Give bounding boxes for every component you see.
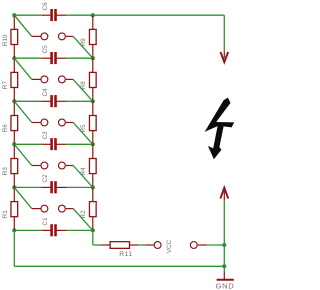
pin stub VCC contact bbox=[145, 244, 154, 246]
capacitor C3 bbox=[42, 138, 67, 150]
wire row 6 left segment bbox=[14, 229, 41, 231]
capacitor C4 bbox=[42, 95, 67, 107]
wire vertical right net bbox=[223, 201, 225, 267]
resistor R6 bbox=[11, 101, 18, 144]
capacitor C1 bbox=[42, 224, 67, 236]
junction row 6 right bbox=[91, 228, 95, 232]
label C1 bbox=[42, 217, 49, 226]
label R3 bbox=[2, 167, 9, 176]
off-page arrow (up) right side bbox=[220, 188, 228, 201]
wire diagonal row4 to left contact bbox=[14, 144, 32, 165]
label R11 bbox=[119, 251, 132, 258]
wire row 3 right segment bbox=[66, 100, 92, 102]
wire left bus bottom bbox=[14, 230, 224, 266]
contact pin left (pair 4) bbox=[32, 162, 48, 169]
svg-text:C4: C4 bbox=[42, 88, 49, 97]
wire row 3 left segment bbox=[14, 100, 41, 102]
svg-text:R7: R7 bbox=[2, 81, 9, 90]
resistor R11 bbox=[102, 242, 139, 249]
resistor R7 bbox=[11, 58, 18, 101]
junction right net at bottom wire bbox=[222, 264, 226, 268]
label R1 bbox=[2, 210, 9, 219]
capacitor C6 bbox=[42, 9, 67, 21]
wire row 1 right segment bbox=[66, 14, 92, 16]
pin contact right of VCC bbox=[190, 242, 207, 249]
contact pin left (pair 2) bbox=[32, 76, 48, 83]
svg-text:C1: C1 bbox=[42, 217, 49, 226]
wire right bus to R11 bbox=[93, 230, 102, 245]
wire row 1 left segment bbox=[14, 14, 41, 16]
label R4 bbox=[80, 167, 87, 176]
label R7 bbox=[2, 81, 9, 90]
label R8 bbox=[80, 81, 87, 90]
contact pin right (pair 1) bbox=[58, 33, 73, 40]
resistor R1 bbox=[11, 187, 18, 230]
wire diagonal right contact to row6 bbox=[73, 209, 93, 231]
contact pin left (pair 1) bbox=[32, 33, 48, 40]
junction row 5 right bbox=[91, 185, 95, 189]
junction right net at VCC row bbox=[222, 243, 226, 247]
wire diagonal right contact to row3 bbox=[73, 79, 93, 101]
pin VCC (connector contact) bbox=[154, 242, 161, 249]
ground GND symbol bbox=[217, 266, 234, 280]
resistor R10 bbox=[11, 15, 18, 58]
label C3 bbox=[42, 131, 49, 140]
junction row 3 left bbox=[12, 99, 16, 103]
svg-text:GND: GND bbox=[216, 281, 235, 290]
label R5 bbox=[80, 124, 87, 133]
resistor R3 bbox=[11, 144, 18, 187]
junction row 5 left bbox=[12, 185, 16, 189]
wire diagonal row3 to left contact bbox=[14, 101, 32, 122]
svg-text:R1: R1 bbox=[2, 210, 9, 219]
junction row 4 left bbox=[12, 142, 16, 146]
junction row 1 right bbox=[91, 13, 95, 17]
wire row 5 left segment bbox=[14, 186, 41, 188]
wire row 2 left segment bbox=[14, 57, 41, 59]
wire row 6 right segment bbox=[66, 229, 92, 231]
resistor R4 bbox=[89, 144, 96, 187]
wire row 4 right segment bbox=[66, 143, 92, 145]
wire row 4 left segment bbox=[14, 143, 41, 145]
junction row 3 right bbox=[91, 99, 95, 103]
svg-text:C5: C5 bbox=[42, 45, 49, 54]
svg-text:R11: R11 bbox=[119, 251, 132, 258]
contact pin right (pair 5) bbox=[58, 205, 73, 212]
wire row 2 right segment bbox=[66, 57, 92, 59]
wire diagonal right contact to row5 bbox=[73, 166, 93, 188]
label C5 bbox=[42, 45, 49, 54]
junction row 4 right bbox=[91, 142, 95, 146]
wire diagonal row2 to left contact bbox=[14, 58, 32, 79]
resistor R2 bbox=[89, 187, 96, 230]
svg-text:R3: R3 bbox=[2, 167, 9, 176]
svg-text:C6: C6 bbox=[42, 2, 49, 11]
wire pin to vertical net bbox=[207, 244, 224, 246]
junction row 2 left bbox=[12, 56, 16, 60]
contact pin right (pair 4) bbox=[58, 162, 73, 169]
svg-text:VCC: VCC bbox=[166, 239, 173, 253]
label C2 bbox=[42, 174, 49, 183]
label R10 bbox=[2, 34, 9, 46]
svg-text:C3: C3 bbox=[42, 131, 49, 140]
label GND bbox=[216, 281, 235, 290]
label C6 bbox=[42, 2, 49, 11]
resistor R8 bbox=[89, 58, 96, 101]
lightning bolt symbol bbox=[205, 98, 235, 160]
svg-text:C2: C2 bbox=[42, 174, 49, 183]
resistor R5 bbox=[89, 101, 96, 144]
capacitor C5 bbox=[42, 52, 67, 64]
contact pin left (pair 5) bbox=[32, 205, 48, 212]
resistor R9 bbox=[89, 15, 96, 58]
wire diagonal right contact to row2 bbox=[73, 36, 93, 58]
wire diagonal row1 to left contact bbox=[14, 15, 32, 36]
label C4 bbox=[42, 88, 49, 97]
wire net row1 to top-right corner bbox=[93, 15, 225, 51]
off-page arrow (down) top right bbox=[221, 52, 229, 63]
contact pin right (pair 3) bbox=[58, 119, 73, 126]
wire diagonal right contact to row4 bbox=[73, 123, 93, 145]
label R2 bbox=[80, 210, 87, 219]
capacitor C2 bbox=[42, 181, 67, 193]
wire row 5 right segment bbox=[66, 186, 92, 188]
contact pin left (pair 3) bbox=[32, 119, 48, 126]
contact pin right (pair 2) bbox=[58, 76, 73, 83]
wire R11 to VCC pin bbox=[138, 244, 145, 246]
label R9 bbox=[80, 38, 87, 47]
svg-text:R10: R10 bbox=[2, 34, 9, 46]
junction row 1 left bbox=[12, 13, 16, 17]
junction row 2 right bbox=[91, 56, 95, 60]
label R6 bbox=[2, 124, 9, 133]
wire diagonal row5 to left contact bbox=[14, 187, 32, 208]
svg-text:R6: R6 bbox=[2, 124, 9, 133]
label VCC bbox=[166, 239, 173, 253]
junction row 6 left bbox=[12, 228, 16, 232]
